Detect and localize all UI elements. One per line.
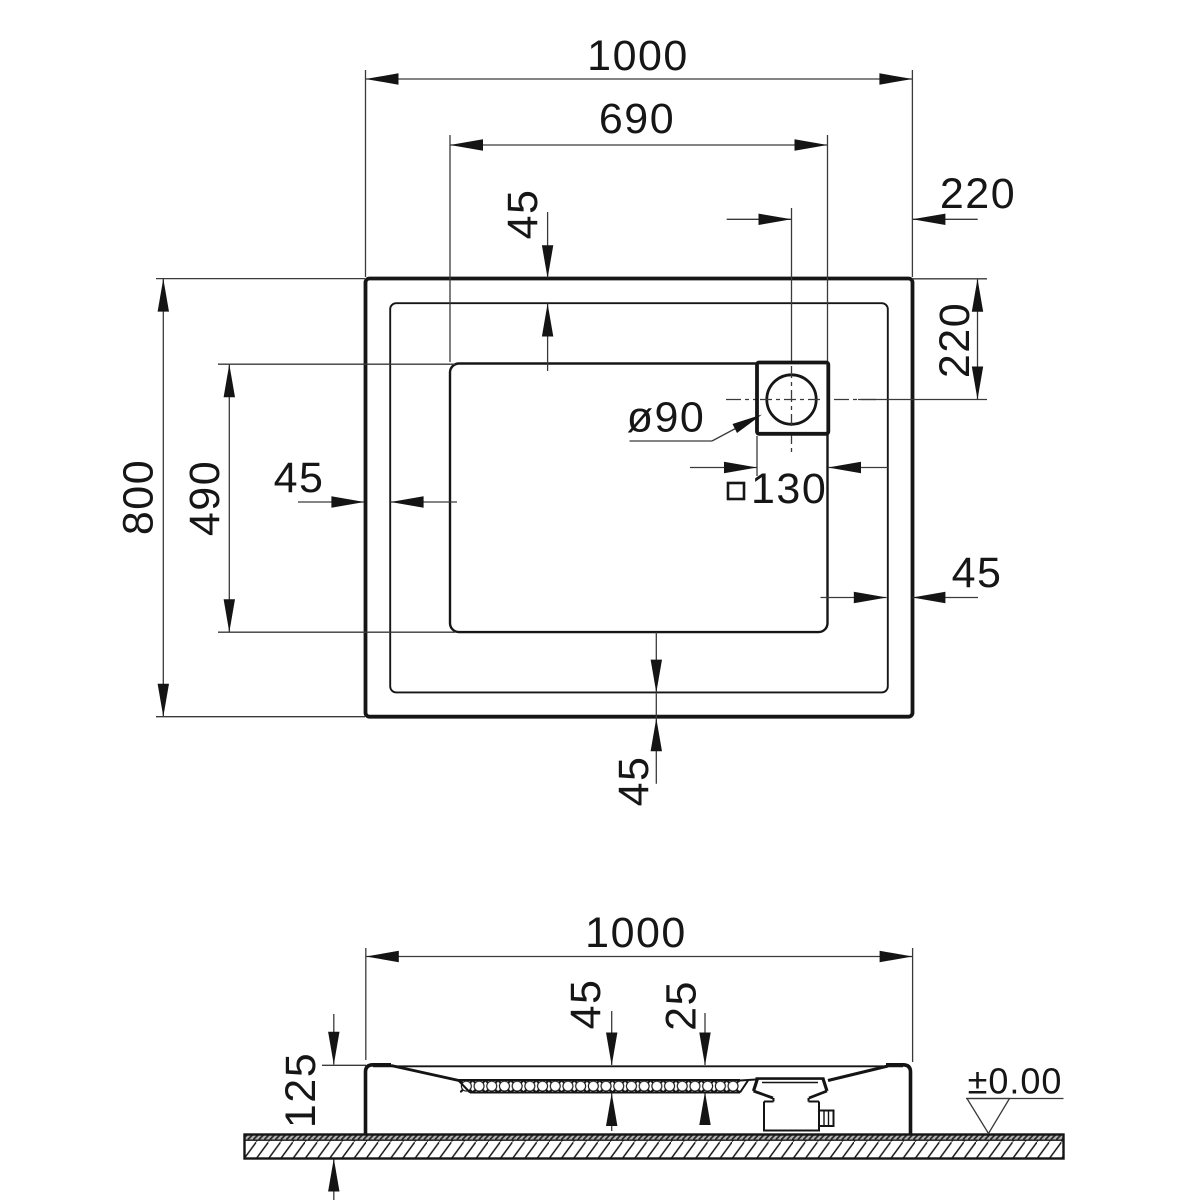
dim 220 top arrow right	[759, 214, 792, 225]
dim 45 left arrow left	[391, 496, 424, 507]
drain trap neck	[774, 1098, 809, 1102]
tray side right slope	[828, 1066, 888, 1081]
drain outlet ribs	[824, 1111, 829, 1127]
svg-text:800: 800	[115, 459, 163, 535]
svg-text:45: 45	[562, 979, 610, 1030]
drain square centerline v	[791, 366, 793, 430]
extension line right 220 top	[912, 278, 987, 280]
dim 130 square glyph	[728, 483, 744, 499]
anti-slip strip top border	[458, 1079, 740, 1081]
dim 45 bottom-right left tail	[821, 597, 887, 599]
dim 490 arrow up	[224, 364, 235, 397]
dim 800 arrow up	[158, 279, 169, 312]
dim 490 line	[228, 364, 230, 632]
svg-text:±0.00: ±0.00	[968, 1061, 1063, 1102]
base plate mid line	[245, 1139, 1064, 1141]
basin rect	[450, 364, 828, 633]
side dim 125 upper line	[333, 1014, 335, 1065]
drain center vertical extension	[791, 208, 793, 348]
tray side profile left wall	[366, 1065, 392, 1135]
svg-text:1000: 1000	[587, 32, 689, 80]
svg-text:ø90: ø90	[627, 394, 706, 442]
drain square	[757, 363, 828, 434]
level marker triangle	[967, 1099, 1010, 1134]
anti-slip strip bottom border	[470, 1092, 740, 1094]
base plate hatch layer	[245, 1140, 1064, 1157]
dim 45 bottom-center arrow up	[651, 718, 662, 751]
dim 45 bottom-right arrow right	[854, 592, 887, 603]
extension line left of 800 top	[156, 278, 365, 280]
svg-text:130: 130	[751, 465, 827, 513]
drain outlet stub	[819, 1111, 834, 1127]
side dim 125 ext	[322, 1064, 366, 1066]
extension line left of 800 bottom	[156, 716, 365, 718]
drain cover right tick	[823, 1079, 827, 1091]
drain circle	[767, 375, 816, 424]
strip right taper	[740, 1081, 748, 1093]
dim 220 right arrow up	[972, 279, 983, 312]
base plate fine top layer	[245, 1135, 1064, 1141]
dim 220 right arrow down	[972, 367, 983, 400]
side dim 45 upper line	[611, 1011, 613, 1065]
svg-text:690: 690	[599, 95, 675, 143]
tray side left slope	[391, 1066, 460, 1081]
svg-text:45: 45	[274, 454, 325, 502]
dim 220 right line	[977, 279, 979, 400]
dim 130 arrow left	[828, 462, 861, 473]
dim 45 top arrow down	[542, 245, 553, 278]
dim 220 top arrow left	[912, 214, 945, 225]
tray side top rim line	[373, 1065, 903, 1067]
side dim 1000 ext right	[912, 948, 914, 1062]
side dim 125 arrow up	[328, 1159, 339, 1192]
dim 1000 arrow left	[366, 73, 399, 84]
svg-text:220: 220	[940, 170, 1016, 218]
anti-slip strip left taper	[458, 1080, 470, 1093]
drain funnel left	[754, 1091, 774, 1098]
dim 45 bottom-center line	[655, 632, 657, 784]
side dim 125 lower line	[333, 1159, 335, 1200]
drain square centerline h	[760, 399, 824, 401]
drain funnel right	[809, 1091, 827, 1098]
dim 45 top arrow up	[542, 304, 553, 337]
dim 130 arrow right	[724, 462, 757, 473]
o90 leader	[712, 417, 757, 441]
drain trap box	[764, 1102, 819, 1131]
surface between strip and drain	[740, 1080, 756, 1081]
dim 1000 line	[366, 78, 913, 80]
dim 45 left arrow right	[331, 496, 364, 507]
svg-text:45: 45	[952, 549, 1003, 597]
tray side right wall	[886, 1065, 911, 1135]
dim 45 bottom-right right tail	[912, 597, 978, 599]
side dim 125 arrow down	[328, 1032, 339, 1065]
side dim 1000 line	[366, 956, 913, 958]
svg-text:1000: 1000	[585, 909, 687, 957]
drain recess floor	[762, 1082, 818, 1084]
dim 490 arrow down	[224, 599, 235, 632]
svg-text:45: 45	[499, 189, 547, 240]
side dim 1000 arrow right	[880, 951, 913, 962]
side dim 25 upper line	[704, 1013, 706, 1065]
inner rim rect	[390, 303, 888, 692]
level marker underline	[966, 1098, 1064, 1100]
extension line 490 top	[218, 363, 455, 365]
extension line 690 left	[449, 135, 451, 362]
dim 220 top right tail	[912, 218, 977, 220]
svg-text:25: 25	[658, 980, 706, 1031]
dim 45 top lower line	[547, 304, 549, 372]
dim 690 arrow right	[795, 139, 828, 150]
side dim 45 lower line	[611, 1093, 613, 1131]
drain cover top	[756, 1077, 825, 1080]
extension line 1000 right	[911, 70, 913, 277]
outer tray rect	[366, 279, 913, 717]
drain vertical centerline	[791, 348, 793, 455]
dim 690 line	[450, 144, 828, 146]
anti-slip strip band	[460, 1080, 740, 1093]
dim 45 top upper line	[547, 212, 549, 278]
drain cover left tick	[754, 1079, 758, 1091]
dim 220 top left tail	[727, 218, 792, 220]
o90 leader arrow	[733, 415, 763, 434]
side dim 45 arrow up	[606, 1093, 617, 1126]
dim 130 right tail	[828, 467, 888, 469]
dim 45 bottom-center arrow down	[651, 660, 662, 693]
side dim 1000 arrow left	[366, 951, 399, 962]
dim 800 line	[162, 279, 164, 717]
svg-text:220: 220	[931, 302, 979, 378]
dim 1000 arrow right	[879, 73, 912, 84]
dim 45 left right tail	[391, 501, 457, 503]
dim 800 arrow down	[158, 684, 169, 717]
svg-text:45: 45	[610, 756, 658, 807]
svg-text:125: 125	[277, 1052, 325, 1128]
extension line 690 right	[827, 135, 829, 362]
dim 45 bottom-right arrow left	[912, 592, 945, 603]
base plate outline	[245, 1135, 1064, 1159]
base plate body	[245, 1135, 1064, 1159]
side dim 1000 ext left	[365, 948, 367, 1060]
o90 underline	[630, 440, 713, 442]
dim 690 arrow left	[450, 139, 483, 150]
side dim 25 arrow down	[699, 1033, 710, 1066]
dim 45 left tail	[298, 501, 364, 503]
extension line 1000 left	[365, 70, 367, 277]
side dim 25 lower line	[704, 1092, 706, 1110]
extension line 130 left	[756, 436, 758, 476]
svg-text:490: 490	[181, 460, 229, 536]
side dim 25 arrow up	[699, 1092, 710, 1125]
dim 130 left tail	[690, 467, 757, 469]
extension line 490 bottom	[218, 631, 455, 633]
drain horizontal centerline	[726, 399, 880, 401]
side dim 45 arrow down	[606, 1033, 617, 1066]
extension from drain center to right 220 dim	[858, 399, 987, 401]
